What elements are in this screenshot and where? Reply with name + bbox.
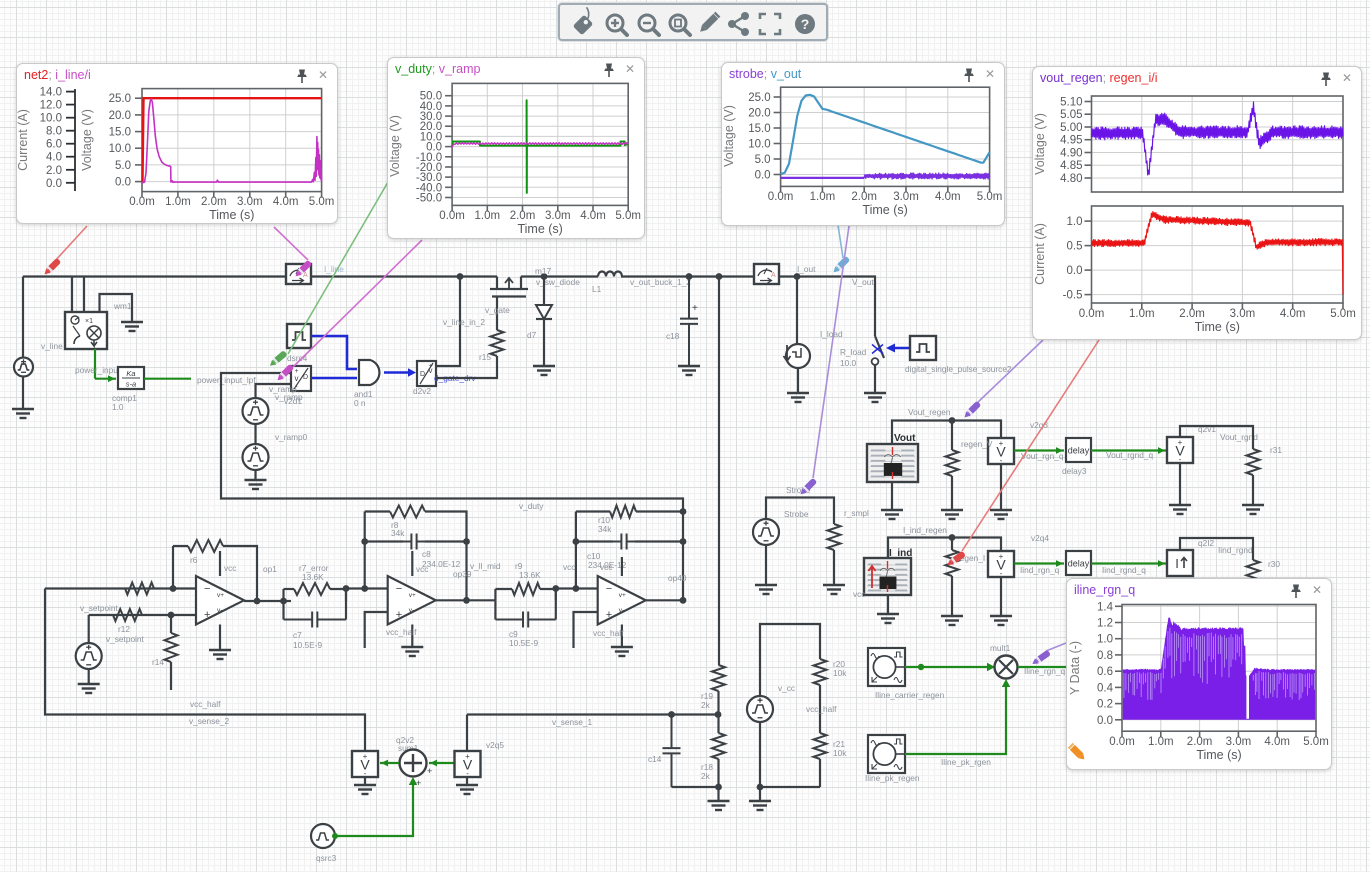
- inductor L1: [598, 272, 622, 277]
- wire op40 plus stub: [574, 612, 598, 648]
- svg-text:Voltage (V): Voltage (V): [388, 115, 402, 177]
- label r18 2k: [701, 762, 713, 781]
- label op1: [263, 564, 277, 574]
- wire pk to mult1 (green): [905, 679, 1010, 754]
- svg-text:Iind_rgnd_q: Iind_rgnd_q: [1102, 565, 1146, 575]
- svg-text:15.0: 15.0: [748, 123, 770, 135]
- svg-text:v2d1: v2d1: [284, 396, 302, 406]
- probe callout i_line (magenta): [274, 227, 308, 260]
- wire op1 vcc stub: [219, 551, 221, 576]
- label v2q5: [486, 740, 504, 750]
- label v2d1 v_ramp: [269, 384, 303, 406]
- svg-text:-: -: [1179, 455, 1182, 464]
- probe vout_regen (purple): [962, 401, 981, 420]
- wire digital pulse to switch (blue): [886, 344, 910, 353]
- net label vcc op1: [224, 563, 236, 573]
- label q2v1: [1198, 424, 1216, 434]
- svg-text:Time (s): Time (s): [209, 208, 254, 222]
- probe callout iline_rgn_q (purple): [1046, 643, 1066, 651]
- svg-text:delay3: delay3: [1062, 466, 1087, 476]
- label q2v2 sum1: [396, 735, 419, 753]
- ground below regen_I resistor: [941, 616, 963, 625]
- label op39: [453, 569, 472, 579]
- svg-text:v2q5: v2q5: [486, 740, 504, 750]
- net label Vout_rgnd_q: [1106, 450, 1153, 460]
- source q2I2: [1167, 550, 1193, 576]
- svg-text:s-a: s-a: [126, 380, 136, 389]
- svg-text:1.4: 1.4: [1097, 601, 1114, 613]
- svg-text:v-: v-: [619, 607, 624, 614]
- node junction d7: [541, 273, 548, 280]
- wire I_load to ground: [797, 368, 799, 393]
- svg-text:power_input_lpf: power_input_lpf: [197, 375, 256, 385]
- probe v_duty (green): [268, 350, 288, 368]
- wire strobe bracket: [766, 498, 834, 525]
- svg-text:8.0: 8.0: [46, 126, 62, 138]
- wire q2I2 to r30: [1180, 538, 1253, 560]
- svg-text:0.0: 0.0: [755, 170, 771, 182]
- wire v_cc bottom: [757, 722, 820, 790]
- ground below I_ind display: [877, 614, 899, 623]
- net label vcc_half op39: [386, 627, 417, 637]
- label m17: [535, 266, 552, 276]
- op-amp op1: [196, 576, 244, 625]
- svg-text:10.5E-9: 10.5E-9: [509, 638, 538, 648]
- probe callout net2 (red): [54, 226, 87, 262]
- svg-text:digital_single_pulse_source2: digital_single_pulse_source2: [905, 364, 1012, 374]
- ground below v2q5: [456, 785, 478, 794]
- svg-text:2.0m: 2.0m: [851, 191, 877, 203]
- voltage source v_line: [14, 277, 33, 410]
- wire top rail I_line to MOSFET: [311, 275, 497, 277]
- wire I_ind_regen: [888, 534, 1001, 558]
- net label I_ind_regen: [903, 525, 947, 535]
- voltage source v_ramp0: [243, 444, 269, 470]
- svg-text:5.0m: 5.0m: [1303, 736, 1329, 748]
- diode d7: [536, 277, 552, 367]
- label Iline_carrier_regen: [875, 690, 945, 700]
- svg-text:Time (s): Time (s): [1196, 748, 1241, 762]
- svg-text:r6: r6: [190, 555, 198, 565]
- label d7: [527, 330, 537, 340]
- net label v_gate: [485, 305, 510, 315]
- svg-text:r12: r12: [118, 624, 130, 634]
- wire r6 feedback bracket: [173, 546, 257, 601]
- svg-text:+: +: [427, 766, 432, 776]
- resistor r30: [1247, 560, 1260, 586]
- svg-text:4.80: 4.80: [1060, 173, 1082, 185]
- probe callout regen_i (red): [962, 340, 1099, 551]
- resistor regen divider: [946, 421, 959, 511]
- wire regen_I to ground: [1000, 577, 1002, 616]
- svg-text:10.0: 10.0: [840, 358, 857, 368]
- source q2v2: [352, 751, 378, 778]
- svg-text:4.90: 4.90: [1060, 148, 1082, 160]
- svg-text:+: +: [204, 609, 210, 621]
- probe callout v_duty (green): [288, 182, 388, 354]
- svg-text:15.0: 15.0: [109, 127, 131, 139]
- label c10 234.0E-12: [563, 551, 627, 572]
- capacitor c14: [663, 715, 681, 788]
- label r20 10k: [833, 659, 847, 678]
- capacitor c7 branch: [284, 589, 347, 628]
- svg-text:op1: op1: [263, 564, 277, 574]
- wire mult1 out (green): [1018, 666, 1066, 668]
- svg-text:v+: v+: [409, 592, 416, 599]
- digital source dsrc4: [287, 324, 311, 348]
- label r30: [1268, 559, 1280, 569]
- svg-text:20.0: 20.0: [748, 108, 770, 120]
- toolbar icon zoom-in: [607, 15, 627, 35]
- svg-text:v_duty: v_duty: [519, 501, 544, 511]
- net label d_gate_drv: [434, 373, 476, 383]
- resistor r6: [188, 540, 223, 552]
- ground below Strobe: [755, 585, 777, 594]
- ground below op40: [611, 647, 633, 656]
- wire op39 plus stub: [365, 612, 388, 648]
- probe iline_rgn_q (purple): [1031, 650, 1051, 667]
- label r14: [152, 657, 164, 667]
- svg-text:5.0: 5.0: [115, 160, 131, 172]
- label Vout: [894, 433, 916, 444]
- wire I_ind display to ground: [887, 595, 889, 614]
- svg-text:c7: c7: [293, 630, 302, 640]
- probe callout strobe (purple): [813, 226, 849, 478]
- ground below op1: [209, 650, 231, 659]
- svg-text:delay: delay: [1068, 446, 1090, 456]
- wire to op40 minus: [552, 585, 597, 592]
- wire V_out segment: [779, 277, 875, 337]
- svg-text:I_out: I_out: [797, 264, 816, 274]
- resistor r9 branch: [495, 583, 555, 600]
- wire c14 r18 bottom: [672, 784, 722, 791]
- label Iline_pk_regen: [865, 773, 920, 783]
- node junction v_sense tap: [716, 273, 723, 280]
- resistor r12: [113, 609, 142, 621]
- svg-text:3.0m: 3.0m: [1230, 308, 1256, 320]
- net label vcc_half op40: [593, 628, 624, 638]
- label r9 13.6K: [515, 561, 541, 580]
- wire to op39 minus: [343, 585, 388, 592]
- voltage source v_ramp: [243, 398, 269, 424]
- wire op1 plus input: [89, 614, 196, 616]
- node junction r14 tap: [168, 612, 175, 619]
- label mult1: [990, 643, 1011, 653]
- probe strobe (purple): [798, 478, 817, 497]
- svg-text:1.0m: 1.0m: [165, 196, 191, 208]
- svg-text:1.0: 1.0: [1097, 634, 1113, 646]
- svg-text:10k: 10k: [833, 748, 847, 758]
- wire v2q5 to sum1 (green): [429, 760, 454, 767]
- plot panel iline_rgn_q: [1066, 578, 1332, 770]
- label r15: [479, 352, 491, 362]
- toolbar icon edit: [698, 12, 721, 35]
- svg-text:5.0m: 5.0m: [977, 191, 1003, 203]
- wire op39 output: [436, 597, 496, 604]
- svg-text:3.0m: 3.0m: [545, 210, 571, 222]
- net label Iline_pk_rgen: [941, 757, 991, 767]
- svg-text:1.0: 1.0: [112, 402, 124, 412]
- wire r8 c8 feedback bracket: [365, 512, 467, 602]
- toolbar icon tag: [570, 7, 598, 35]
- wire op39 to ground: [411, 625, 413, 648]
- net label vcc_half r14: [190, 699, 221, 709]
- probe v_ramp (magenta): [275, 364, 294, 383]
- svg-text:0.4: 0.4: [1097, 682, 1114, 694]
- svg-text:v-: v-: [409, 607, 414, 614]
- ground below r18: [708, 801, 730, 810]
- wire regen_V to ground: [1000, 464, 1002, 510]
- svg-text:v: v: [295, 374, 299, 383]
- svg-text:×1: ×1: [85, 318, 93, 325]
- probe net2 (red): [42, 258, 61, 277]
- svg-text:+: +: [294, 368, 298, 375]
- svg-text:?: ?: [801, 16, 810, 32]
- svg-text:Iline_pk_regen: Iline_pk_regen: [865, 773, 920, 783]
- svg-text:v_sense_2: v_sense_2: [189, 716, 230, 726]
- op-amp op40: [598, 576, 646, 625]
- svg-text:4.0m: 4.0m: [580, 210, 606, 222]
- probe regen_i (red): [946, 551, 966, 568]
- ground below regen_I: [990, 616, 1012, 625]
- svg-text:34k: 34k: [391, 528, 405, 538]
- wire v_ramp input: [256, 384, 293, 398]
- svg-text:A: A: [303, 272, 308, 279]
- label wm1: [113, 301, 132, 311]
- wire power_input (green): [95, 349, 116, 382]
- svg-text:L1: L1: [592, 284, 602, 294]
- label and1 0 n: [354, 389, 373, 408]
- svg-text:Iline_rgn_q: Iline_rgn_q: [1024, 666, 1065, 676]
- net label Vout_rgn_q: [1021, 451, 1064, 461]
- net label Iline_rgn_q: [1024, 666, 1065, 676]
- resistor r20: [814, 659, 827, 733]
- svg-text:wm1: wm1: [113, 301, 132, 311]
- svg-text:Voltage (V): Voltage (V): [80, 109, 94, 171]
- current source I_load: [784, 344, 811, 368]
- wire Strobe to ground: [765, 545, 767, 585]
- wire op1 output: [244, 598, 291, 605]
- svg-text:vcc_half: vcc_half: [593, 628, 624, 638]
- svg-text:5.0m: 5.0m: [1330, 308, 1356, 320]
- svg-text:0.8: 0.8: [1097, 650, 1113, 662]
- converter d2v2: [417, 361, 436, 386]
- label r7_error 13.6K: [299, 563, 329, 582]
- svg-text:v_sense_1: v_sense_1: [552, 717, 593, 727]
- svg-text:Vout: Vout: [894, 433, 916, 444]
- svg-text:0.0: 0.0: [115, 177, 131, 189]
- label delay3: [1062, 466, 1087, 476]
- net label Vout_regen: [908, 407, 951, 417]
- svg-text:v_setpoint: v_setpoint: [106, 634, 145, 644]
- wire r19 from top rail: [718, 277, 720, 666]
- svg-text:5.00: 5.00: [1060, 122, 1082, 134]
- digital source digital_single_pulse_source2: [910, 336, 936, 360]
- svg-text:+: +: [396, 609, 402, 621]
- wire q2v2 to ground: [364, 777, 366, 785]
- svg-text:R_load: R_load: [840, 347, 867, 357]
- svg-text:delay: delay: [1068, 559, 1090, 569]
- label qsrc3: [316, 853, 337, 863]
- svg-text:5.0m: 5.0m: [615, 210, 641, 222]
- wire op40 output: [646, 597, 687, 604]
- svg-text:1.2: 1.2: [1097, 618, 1113, 630]
- svg-text:4.0m: 4.0m: [273, 196, 299, 208]
- resistor r8: [390, 506, 425, 518]
- svg-text:-: -: [466, 769, 469, 778]
- net label Iind_rgnd: [1218, 545, 1253, 555]
- svg-text:v_ll_mid: v_ll_mid: [470, 561, 501, 571]
- net label power_input_lpf: [197, 375, 256, 385]
- svg-text:5.10: 5.10: [1060, 97, 1082, 109]
- resistor r10: [610, 506, 636, 518]
- svg-text:10k: 10k: [833, 668, 847, 678]
- net label v_ll_mid: [470, 561, 501, 571]
- label dsrc4: [287, 353, 308, 363]
- svg-text:1.0m: 1.0m: [1129, 308, 1155, 320]
- svg-text:d2v2: d2v2: [413, 386, 431, 396]
- net label I_line: [324, 264, 344, 274]
- svg-text:4.85: 4.85: [1060, 160, 1082, 172]
- resistor r14: [165, 615, 178, 690]
- svg-text:Time (s): Time (s): [1195, 320, 1240, 334]
- label comp1 1.0: [112, 393, 137, 412]
- wire r10 c10 feedback bracket: [576, 508, 686, 588]
- svg-text:c8: c8: [422, 549, 431, 559]
- resistor r11 input: [125, 583, 154, 595]
- net label Iind_rgn_q: [1020, 565, 1060, 575]
- voltage source v_cc: [747, 696, 773, 722]
- svg-text:v_out_buck_1_2: v_out_buck_1_2: [630, 277, 691, 287]
- wire power_input_lpf (green): [144, 378, 191, 380]
- plot panel vout_regen; regen_i/i: [1032, 66, 1362, 340]
- svg-text:0.5: 0.5: [1067, 241, 1083, 253]
- summer sum1: [400, 750, 433, 789]
- label c8 234.0E-12: [422, 549, 461, 569]
- svg-text:2k: 2k: [701, 771, 711, 781]
- svg-text:2.0m: 2.0m: [1187, 736, 1213, 748]
- svg-text:0.2: 0.2: [1097, 699, 1113, 711]
- net label vcc op40: [600, 562, 612, 572]
- ground below q2v2: [354, 785, 376, 794]
- wire v2q5 to ground: [466, 777, 468, 785]
- svg-text:+: +: [999, 439, 1004, 448]
- svg-text:+: +: [606, 609, 612, 621]
- svg-text:Time (s): Time (s): [862, 203, 907, 217]
- svg-text:D: D: [420, 371, 425, 378]
- wire Vout_regen: [892, 417, 1001, 444]
- wire switch to ground: [874, 365, 876, 393]
- ground below regen resistor: [941, 510, 963, 519]
- net label V_out: [852, 277, 874, 287]
- label r6: [190, 555, 198, 565]
- node junction I_load: [794, 273, 801, 280]
- svg-text:−: −: [606, 583, 612, 595]
- svg-text:v+: v+: [619, 592, 626, 599]
- svg-text:+: +: [363, 752, 368, 761]
- svg-text:regen_V: regen_V: [961, 439, 993, 449]
- svg-text:vcc: vcc: [224, 563, 236, 573]
- wire d_gate_drv: [436, 356, 497, 378]
- svg-text:v_cc: v_cc: [778, 683, 795, 693]
- svg-text:Strobe: Strobe: [784, 509, 809, 519]
- label c18: [666, 331, 680, 341]
- label v_cc: [778, 683, 795, 693]
- probe callout v_ramp (magenta): [293, 240, 422, 367]
- svg-text:I_load: I_load: [820, 329, 843, 339]
- svg-text:r30: r30: [1268, 559, 1280, 569]
- svg-text:3.0m: 3.0m: [237, 196, 263, 208]
- svg-text:r31: r31: [1270, 445, 1282, 455]
- wire wm1 input stubs: [72, 277, 84, 313]
- resistor r31: [1247, 449, 1260, 505]
- source qsrc3: [311, 824, 335, 848]
- node junction r6 tap: [170, 585, 177, 592]
- svg-text:vcc_half: vcc_half: [386, 627, 417, 637]
- label c9 10.5E-9: [509, 629, 538, 648]
- svg-text:Voltage (V): Voltage (V): [1033, 113, 1047, 175]
- svg-text:5.0: 5.0: [755, 154, 771, 166]
- ground below op39: [401, 647, 423, 656]
- svg-text:r15: r15: [479, 352, 491, 362]
- wattmeter wm1: [65, 312, 107, 349]
- voltage source Strobe: [753, 519, 779, 545]
- svg-text:0.0m: 0.0m: [768, 191, 794, 203]
- svg-text:Vout_rgn_q: Vout_rgn_q: [1021, 451, 1064, 461]
- wire between v_ramp sources: [254, 424, 256, 444]
- svg-text:1.0m: 1.0m: [810, 191, 836, 203]
- svg-text:v+: v+: [217, 592, 224, 599]
- svg-text:d7: d7: [527, 330, 537, 340]
- svg-text:2.0m: 2.0m: [1179, 308, 1205, 320]
- svg-text:Current (A): Current (A): [1033, 223, 1047, 285]
- svg-text:r_smpl: r_smpl: [844, 508, 869, 518]
- wire delay4 to q2I2 (green): [1091, 560, 1166, 567]
- svg-text:0.0m: 0.0m: [1079, 308, 1105, 320]
- resistor r7_error branch: [284, 583, 347, 601]
- svg-text:3.0m: 3.0m: [893, 191, 919, 203]
- resistor r_smpl: [828, 524, 841, 585]
- svg-text:5.05: 5.05: [1060, 109, 1082, 121]
- toolbar icon zoom-out: [639, 15, 659, 35]
- label r_smpl: [844, 508, 869, 518]
- svg-text:Current (A): Current (A): [17, 109, 30, 171]
- net label power_input: [75, 365, 121, 375]
- source Iline_carrier_regen: [868, 648, 905, 686]
- svg-text:-50.0: -50.0: [416, 193, 442, 205]
- label v_ramp0: [275, 432, 308, 442]
- svg-text:25.0: 25.0: [748, 92, 770, 104]
- ground below I_load: [787, 393, 809, 402]
- svg-text:0.0m: 0.0m: [1109, 736, 1135, 748]
- svg-text:2.0m: 2.0m: [201, 196, 227, 208]
- svg-text:0.0: 0.0: [46, 178, 62, 190]
- svg-text:-: -: [1000, 569, 1003, 578]
- ground below regen_V: [990, 510, 1012, 519]
- wire v_out_buck_1_2 segment: [621, 275, 754, 277]
- svg-text:v_gate: v_gate: [485, 305, 510, 315]
- op-amp op39: [388, 576, 436, 625]
- wire v_gate: [496, 297, 498, 330]
- ground below c18: [678, 366, 700, 375]
- net label Strobe probe: [786, 485, 811, 495]
- svg-text:I_line: I_line: [324, 264, 344, 274]
- ground below v_line: [12, 409, 34, 418]
- svg-text:20.0: 20.0: [109, 110, 131, 122]
- wire v_duty: [221, 373, 683, 600]
- label r10 34k: [598, 515, 612, 534]
- label L1: [592, 284, 602, 294]
